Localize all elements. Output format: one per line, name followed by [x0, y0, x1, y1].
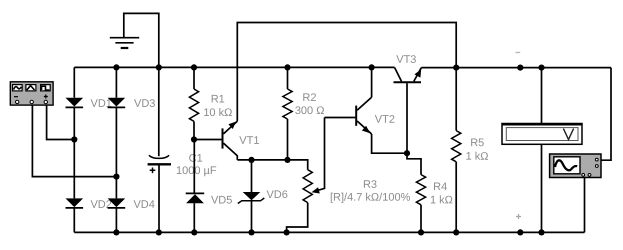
wire top bus right section — [421, 67, 611, 69]
voltmeter plus mark bottom — [516, 214, 521, 219]
node: output junction top — [453, 65, 459, 71]
diode VD5 — [186, 140, 205, 233]
node: VD6 bottom bus junction — [248, 229, 254, 235]
node: voltmeter bottom junction — [538, 229, 544, 235]
wire node B to R4 — [407, 153, 421, 174]
node A: R1/VD5/VT1-base junction — [194, 139, 222, 141]
svg-text:1 kΩ: 1 kΩ — [466, 151, 489, 163]
svg-text:VD5: VD5 — [211, 194, 232, 206]
svg-text:1 kΩ: 1 kΩ — [430, 194, 453, 206]
svg-text:R3: R3 — [363, 179, 377, 191]
node: voltmeter top junction — [538, 65, 544, 71]
wire left bridge column — [73, 67, 75, 232]
node: bridge common input junction — [113, 174, 119, 180]
svg-text:[R]/4.7 kΩ/100%: [R]/4.7 kΩ/100% — [330, 192, 411, 204]
node: C1 top junction — [156, 64, 162, 70]
diode VD2 — [66, 198, 84, 208]
wire generator plus terminal to bridge — [47, 105, 75, 139]
node: bridge top-right junction — [113, 64, 119, 70]
node: R4 bottom bus junction — [418, 229, 424, 235]
resistor R2 — [283, 67, 292, 159]
wire VT2 emitter to node B — [372, 134, 407, 153]
node: R1 top junction — [191, 64, 197, 70]
svg-text:R1: R1 — [211, 94, 225, 106]
svg-text:VT3: VT3 — [396, 54, 416, 66]
node: R3 bottom bus junction — [284, 229, 290, 235]
svg-text:VD3: VD3 — [134, 98, 155, 110]
svg-text:R2: R2 — [302, 92, 316, 104]
label V of voltmeter — [563, 129, 573, 140]
oscilloscope XSC1 — [550, 68, 611, 233]
transistor VT2 — [325, 97, 372, 134]
node: VD4 bottom bus junction — [113, 229, 119, 235]
node: VD5 bottom bus junction — [191, 229, 197, 235]
resistor R5 — [452, 68, 461, 233]
resistor R4 — [416, 175, 425, 233]
voltmeter V1 — [502, 68, 582, 233]
transistor VT3 — [394, 68, 422, 154]
svg-text:300 Ω: 300 Ω — [295, 105, 325, 117]
svg-text:R4: R4 — [433, 181, 447, 193]
diode VD3 — [108, 98, 126, 108]
potentiometer R3 — [287, 118, 325, 233]
node: VT2 collector / VT3 collector junction — [369, 64, 375, 70]
wire VT1 collector rail to R3 top — [237, 160, 307, 170]
wire VT2 collector to top bus — [371, 67, 373, 97]
svg-text:C1: C1 — [189, 153, 203, 165]
svg-text:VD2: VD2 — [90, 199, 111, 211]
node: bridge plus input junction — [71, 136, 77, 142]
node: R2 top junction — [284, 64, 290, 70]
ground — [110, 13, 159, 67]
svg-text:VD4: VD4 — [133, 199, 154, 211]
node: connector dot bottom — [517, 229, 523, 235]
node: VD6 top junction — [248, 157, 254, 163]
svg-text:VT1: VT1 — [239, 135, 259, 147]
node: R2 bottom junction — [284, 157, 290, 163]
svg-text:VT2: VT2 — [375, 114, 395, 126]
diode VD1 — [66, 98, 84, 108]
node A dot — [191, 136, 197, 142]
node: connector dot top — [517, 65, 523, 71]
wire VT1 emitter to top rail and output node — [237, 23, 456, 122]
svg-text:1000 µF: 1000 µF — [176, 165, 217, 177]
svg-text:R5: R5 — [470, 137, 484, 149]
function generator XFG1 — [10, 82, 53, 105]
svg-text:10 kΩ: 10 kΩ — [203, 107, 232, 119]
node: R5 bottom bus junction — [453, 229, 459, 235]
diode VD4 — [108, 198, 126, 208]
node: C1 bottom bus junction — [156, 229, 162, 235]
capacitor C1 — [148, 67, 171, 232]
diode VD6 (zener) — [238, 160, 264, 233]
node B dot: VT3 base / VT2 emitter / R4 — [404, 150, 410, 156]
resistor R1 — [189, 67, 198, 139]
wire top bus left section — [74, 66, 394, 68]
wire bottom bus — [74, 231, 584, 233]
voltmeter plus mark top — [516, 52, 521, 54]
transistor VT1 — [223, 121, 238, 160]
svg-text:VD6: VD6 — [266, 189, 287, 201]
wire right bridge column — [115, 67, 117, 232]
wire generator common terminal to bridge — [32, 105, 116, 177]
